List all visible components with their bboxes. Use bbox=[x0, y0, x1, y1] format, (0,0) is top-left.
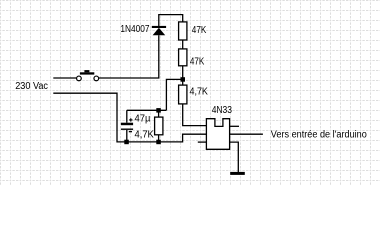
wire: opto pin 5 output to arduino bbox=[230, 133, 263, 135]
label - (C1 polarity) bbox=[129, 131, 132, 132]
junction dot: R4 top bbox=[156, 108, 161, 113]
svg-text:4,7K: 4,7K bbox=[135, 129, 155, 140]
resistor R1 47K bbox=[179, 22, 187, 40]
label + (C1 polarity) bbox=[129, 118, 132, 121]
wire: opto pin 4 emitter to ground bbox=[230, 142, 239, 172]
wire: top rail of RC filter bbox=[127, 109, 167, 111]
ground bbox=[230, 172, 245, 175]
resistor R2 47K bbox=[179, 49, 187, 66]
resistor R3 4,7K bbox=[179, 85, 187, 104]
junction dot: R4 bottom bbox=[156, 140, 161, 145]
svg-text:4,7K: 4,7K bbox=[190, 87, 209, 98]
optocoupler U1 4N33 body bbox=[206, 119, 229, 150]
wire: R1 to R2 bbox=[182, 40, 184, 49]
switch S1 (pushbutton) bbox=[77, 70, 99, 81]
wire: mains line to switch bbox=[53, 77, 76, 79]
junction dot: divider tap bbox=[181, 77, 186, 82]
capacitor C1 bbox=[121, 110, 133, 142]
junction dot: C1 bottom bbox=[124, 140, 129, 145]
svg-text:47µ: 47µ bbox=[135, 113, 151, 124]
diode D1 1N4007 bbox=[152, 26, 166, 35]
svg-text:1N4007: 1N4007 bbox=[120, 24, 149, 35]
wire: R2 to R3 bbox=[182, 66, 184, 85]
svg-text:Vers entrée de l'arduino: Vers entrée de l'arduino bbox=[271, 130, 367, 141]
wire: R3 to opto pin 1 bbox=[183, 104, 207, 126]
wire: diode cathode to top rail to R1 bbox=[159, 15, 183, 26]
svg-text:47K: 47K bbox=[192, 25, 207, 36]
wire: opto pin 6 stub bbox=[230, 125, 239, 127]
svg-text:47K: 47K bbox=[190, 56, 205, 67]
svg-text:230 Vac: 230 Vac bbox=[15, 81, 48, 92]
wire: mains neutral to bottom rail to opto pin 2 bbox=[53, 93, 206, 142]
svg-text:4N33: 4N33 bbox=[212, 105, 233, 116]
wire: opto pin 3 stub bbox=[198, 141, 207, 143]
wire: node B branch (divider tap to RC filter rail) bbox=[166, 79, 182, 110]
resistor R4 4,7K (parallel) bbox=[155, 110, 163, 142]
wire: switch to diode anode bbox=[99, 35, 159, 78]
